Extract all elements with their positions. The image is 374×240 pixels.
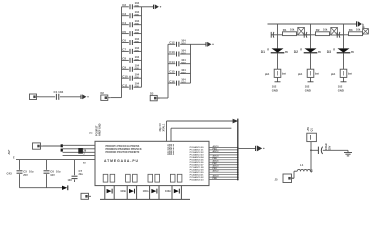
svg-text:C5: C5: [122, 30, 126, 34]
svg-text:100n: 100n: [120, 189, 126, 193]
svg-text:50V: 50V: [135, 41, 140, 44]
svg-text:50V: 50V: [135, 77, 140, 80]
svg-text:R: R: [300, 48, 302, 51]
svg-text:10k: 10k: [356, 28, 361, 32]
svg-text:50V: 50V: [135, 23, 140, 26]
svg-text:103: 103: [68, 179, 73, 182]
svg-text:50V: 50V: [135, 50, 140, 53]
svg-text:10k: 10k: [323, 28, 328, 32]
svg-text:22u: 22u: [79, 173, 84, 176]
svg-text:C6: C6: [50, 169, 54, 173]
svg-text:C15: C15: [169, 70, 175, 74]
svg-text:D3: D3: [327, 50, 331, 54]
svg-text:50V: 50V: [135, 32, 140, 35]
svg-text:100n: 100n: [165, 189, 171, 193]
svg-text:C16: C16: [169, 79, 175, 83]
svg-text:R: R: [333, 48, 335, 51]
svg-text:GND: GND: [305, 88, 311, 92]
svg-text:D2: D2: [101, 91, 105, 95]
svg-text:GND: GND: [272, 88, 278, 92]
svg-text:R2: R2: [316, 28, 320, 32]
svg-text:10u: 10u: [29, 169, 34, 173]
svg-text:Q1: Q1: [311, 128, 314, 132]
svg-text:50V: 50V: [181, 72, 186, 75]
svg-text:50V: 50V: [135, 68, 140, 71]
svg-text:16V: 16V: [50, 174, 55, 177]
svg-text:ATMEGA8A-PU: ATMEGA8A-PU: [104, 159, 139, 163]
svg-text:AD4 4: AD4 4: [167, 153, 174, 156]
svg-text:C3: C3: [122, 12, 126, 16]
svg-text:50V: 50V: [181, 82, 186, 85]
svg-text:m: m: [318, 50, 321, 54]
svg-text:R3: R3: [349, 28, 353, 32]
svg-text:50V: 50V: [135, 14, 140, 17]
svg-text:4u7: 4u7: [310, 168, 313, 173]
svg-text:50V: 50V: [135, 86, 140, 89]
svg-text:50V: 50V: [181, 52, 186, 55]
svg-text:+5V: +5V: [7, 150, 11, 155]
svg-text:50V: 50V: [135, 5, 140, 8]
svg-text:pk1: pk1: [298, 72, 303, 76]
svg-text:AREF GND: AREF GND: [99, 123, 102, 136]
svg-text:50V: 50V: [181, 62, 186, 65]
svg-text:C43: C43: [7, 172, 13, 176]
svg-text:ADC2: ADC2: [213, 150, 220, 153]
svg-text:C5: C5: [23, 169, 27, 173]
svg-text:GND: GND: [338, 88, 344, 92]
svg-text:D3: D3: [150, 91, 154, 95]
svg-text:D2: D2: [294, 50, 298, 54]
svg-text:C11: C11: [122, 83, 128, 87]
svg-text:C8: C8: [122, 57, 126, 61]
svg-text:C7: C7: [79, 169, 83, 173]
svg-text:100uF: 100uF: [325, 143, 328, 150]
svg-text:50V: 50V: [181, 43, 186, 46]
svg-text:C7: C7: [122, 48, 126, 52]
svg-text:10k: 10k: [290, 28, 295, 32]
svg-text:m: m: [285, 50, 288, 54]
svg-text:10u: 10u: [56, 169, 61, 173]
svg-text:C10: C10: [122, 74, 128, 78]
svg-text:R1: R1: [283, 28, 287, 32]
svg-text:R: R: [267, 48, 269, 51]
svg-text:C4: C4: [122, 21, 126, 25]
svg-text:bat: bat: [348, 72, 352, 76]
svg-text:[1]: [1]: [90, 133, 93, 135]
svg-text:100n: 100n: [143, 189, 149, 193]
svg-text:pk1: pk1: [265, 72, 270, 76]
svg-text:C6: C6: [122, 39, 126, 43]
svg-text:L1: L1: [300, 163, 304, 167]
svg-text:m: m: [351, 50, 354, 54]
svg-text:PD0/RXD PD1/TXD PD2/INT0: PD0/RXD PD1/TXD PD2/INT0: [106, 151, 140, 154]
svg-text:bat: bat: [282, 72, 286, 76]
svg-text:50V: 50V: [135, 59, 140, 62]
svg-text:C14: C14: [169, 60, 175, 64]
svg-text:pk1: pk1: [331, 72, 336, 76]
svg-text:bat: bat: [315, 72, 319, 76]
svg-text:D1: D1: [261, 50, 265, 54]
svg-text:PC6/ADC6 23: PC6/ADC6 23: [190, 179, 205, 182]
svg-text:25V: 25V: [23, 174, 28, 177]
svg-text:C2: C2: [122, 3, 126, 7]
svg-text:J5: J5: [275, 178, 279, 182]
svg-text:C9: C9: [122, 66, 126, 70]
svg-text:+5V: +5V: [307, 127, 310, 132]
svg-text:XTAL1: XTAL1: [162, 123, 165, 131]
svg-text:25V: 25V: [329, 145, 332, 150]
svg-text:C12: C12: [169, 41, 175, 45]
svg-text:ADC2: ADC2: [213, 170, 220, 173]
svg-text:C13: C13: [169, 50, 175, 54]
svg-text:C1 104: C1 104: [54, 90, 64, 94]
